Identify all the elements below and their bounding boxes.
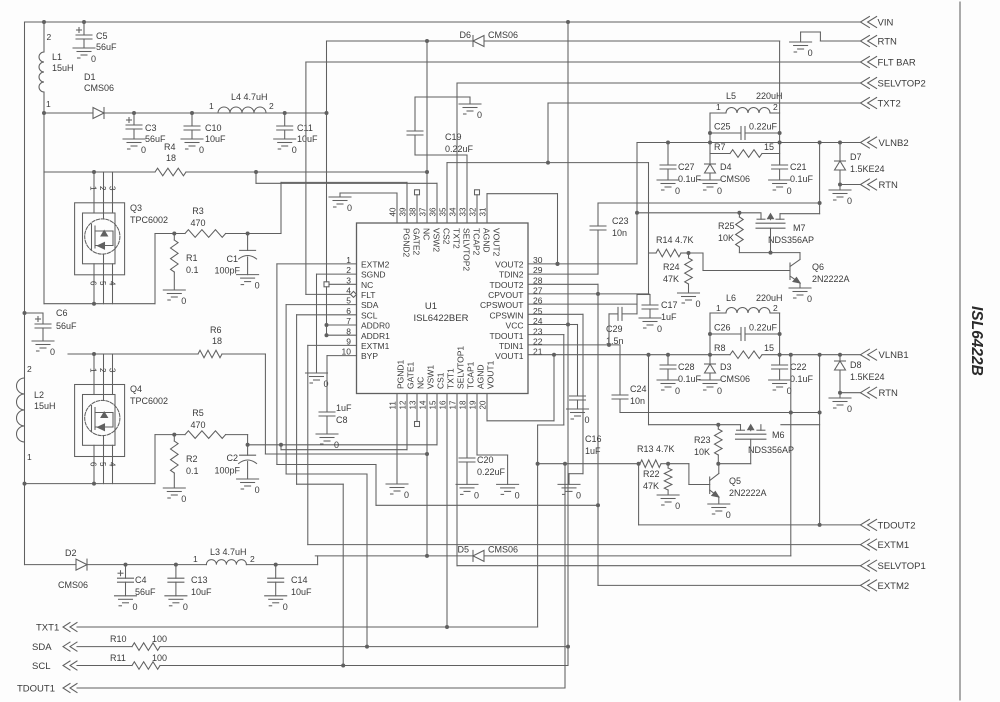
svg-text:10K: 10K [718,233,734,243]
wire D2 row [25,564,77,566]
wire VLNB2 column right / D6 col [779,41,781,165]
wire pin35 TXT2 riser [446,163,448,223]
node VIN-col568 [566,20,570,24]
node R25 top [737,211,741,215]
node R1 top [172,232,176,236]
svg-text:TDOUT1: TDOUT1 [17,684,55,695]
svg-text:NDS356AP: NDS356AP [768,235,814,245]
svg-text:C16: C16 [585,434,602,444]
ground R2 [163,487,185,489]
node TDOUT2 riser R13 [637,462,641,466]
svg-text:5: 5 [98,462,107,467]
svg-text:0.1uF: 0.1uF [790,374,814,384]
svg-text:R3: R3 [192,206,204,216]
svg-text:EXTM2: EXTM2 [878,581,910,592]
svg-text:NC: NC [361,280,373,290]
svg-text:3: 3 [108,368,117,373]
wire TDOUT2 port line [639,524,861,526]
svg-text:L3 4.7uH: L3 4.7uH [210,547,247,557]
wire pin7 ADDR0 [327,324,357,326]
ground CPSWIN net [558,483,580,485]
capacitor C27 [667,143,669,166]
node R23 top [716,423,720,427]
wire SCL line [77,665,132,667]
svg-text:CMS06: CMS06 [84,83,114,93]
svg-text:0: 0 [808,48,813,58]
svg-text:C24: C24 [630,384,647,394]
wire RTN stub [820,40,860,42]
svg-text:C17: C17 [661,300,678,310]
svg-text:0.1uF: 0.1uF [790,174,814,184]
svg-text:15uH: 15uH [52,63,74,73]
svg-text:5: 5 [98,281,107,286]
svg-text:0: 0 [324,379,329,389]
svg-text:R14 4.7K: R14 4.7K [656,235,694,245]
svg-text:PGND2: PGND2 [402,228,412,258]
wire M6 source line [648,355,650,425]
svg-text:32: 32 [469,207,478,216]
svg-text:2: 2 [47,32,52,42]
svg-text:Q3: Q3 [130,203,142,213]
wire L6 col right [779,313,781,365]
port EXTM2 [860,580,869,591]
pin38 NC square [416,195,418,223]
svg-text:40: 40 [389,207,398,216]
page border line [959,2,961,700]
svg-text:Q5: Q5 [729,476,741,486]
svg-text:R23: R23 [694,435,711,445]
svg-text:L2: L2 [34,390,44,400]
wire D6 left riser to D1 row [326,41,328,113]
node D7 RTN [838,183,842,187]
node VLNB2 M7col [818,141,822,145]
node VOUT1 jog [552,353,556,357]
node VLNB1 M6col [818,353,822,357]
port SELVTOP1 [860,560,869,571]
svg-text:D8: D8 [850,360,862,370]
svg-text:C4: C4 [135,575,147,585]
capacitor C28 [667,355,669,365]
node VLNB1 col648 [647,353,651,357]
svg-text:4: 4 [108,462,117,467]
svg-text:D4: D4 [720,162,732,172]
wire GATE1 net [279,443,283,447]
svg-text:0.1uF: 0.1uF [678,174,702,184]
svg-text:C2: C2 [226,453,238,463]
wire SELVTOP2 port line [457,82,860,84]
port TXT2 [860,98,869,109]
node VLNB1 D3col [708,353,712,357]
svg-text:SELVTOP1: SELVTOP1 [878,561,926,572]
svg-text:EXTM1: EXTM1 [361,341,390,351]
node VSW2-D6col [425,170,429,174]
svg-text:0.22uF: 0.22uF [749,122,778,132]
wire VSW1 row [68,353,198,355]
node VOUT2 jog [556,262,560,266]
node C1 top [246,232,250,236]
svg-text:0: 0 [477,110,482,120]
svg-text:10n: 10n [612,228,627,238]
node R13 R22 [666,462,670,466]
svg-text:Q4: Q4 [130,384,142,394]
svg-text:R5: R5 [192,408,204,418]
svg-text:100: 100 [152,653,167,663]
svg-text:0: 0 [675,186,680,196]
svg-text:0: 0 [292,145,297,155]
wire TXT2 port line [548,102,860,104]
wire D5 line [315,555,473,557]
wire Q6 base line [689,252,704,254]
svg-text:VOUT2: VOUT2 [495,259,524,269]
wire D5 net column [790,355,792,556]
capacitor C1 [247,234,249,251]
node M7 line col637 [635,211,639,215]
svg-text:0.1uF: 0.1uF [678,374,702,384]
svg-text:C21: C21 [790,162,807,172]
node VSW2-Q3 [92,170,96,174]
svg-text:D2: D2 [65,548,77,558]
port VLNB1 [860,349,869,360]
svg-text:14: 14 [419,400,428,409]
wire D6 line [327,40,474,42]
svg-text:C20: C20 [477,455,494,465]
wire L3 to D5 riser [317,556,319,565]
capacitor C14 [275,565,277,579]
node M7 drain C23line [818,201,822,205]
svg-text:100pF: 100pF [214,266,240,276]
svg-text:VCC: VCC [506,321,524,331]
wire pin14 VSW1 / D5 column [426,394,428,556]
svg-text:10uF: 10uF [291,587,312,597]
svg-text:0: 0 [334,440,339,450]
svg-text:FLT: FLT [361,290,375,300]
svg-text:RTN: RTN [879,180,898,191]
svg-text:R4: R4 [164,142,176,152]
ground C14 [265,595,287,597]
svg-text:0.1: 0.1 [186,466,199,476]
node D8 RTN [838,391,842,395]
svg-text:33: 33 [459,207,468,216]
wire VSW2 row [43,113,45,172]
svg-text:0: 0 [91,54,96,64]
svg-text:1: 1 [716,303,721,313]
svg-text:VIN: VIN [878,18,894,29]
wire EXTM1 port line [308,544,861,546]
svg-text:D5: D5 [457,545,469,555]
node VLNB1 D5col [789,353,793,357]
svg-text:220uH: 220uH [756,293,783,303]
transistor M6 NDS356AP [740,425,742,431]
svg-text:0.1: 0.1 [186,265,199,275]
capacitor C3 [133,113,135,125]
svg-text:VOUT1: VOUT1 [486,360,496,389]
ground C19 [459,103,481,105]
svg-text:TPC6002: TPC6002 [130,396,168,406]
wire M7 drain jog [819,143,821,214]
ground C1 [237,274,259,276]
wire VLNB2 column left [709,113,711,164]
svg-text:470: 470 [190,218,205,228]
svg-text:C6: C6 [56,308,68,318]
svg-text:L4 4.7uH: L4 4.7uH [231,92,268,102]
svg-text:VOUT2: VOUT2 [492,228,502,257]
port FLT BAR [860,57,869,68]
svg-text:VSW2: VSW2 [432,228,442,252]
svg-text:C3: C3 [145,123,157,133]
svg-text:C26: C26 [714,323,731,333]
wire RTN stub 2 [840,184,860,186]
wire VCC jog to C16 [568,324,578,326]
wire pin34 SELVTOP2 riser [456,83,458,223]
node C26 L [708,332,712,336]
diode D3 [705,363,716,365]
capacitor C4 [125,565,127,579]
ground C20 [456,483,478,485]
svg-text:0: 0 [50,347,55,357]
svg-text:4: 4 [108,281,117,286]
svg-text:SELVTOP1: SELVTOP1 [456,346,466,389]
svg-text:19: 19 [469,400,478,409]
svg-text:10n: 10n [630,396,645,406]
svg-text:AGND: AGND [476,364,486,389]
node R2 top [172,433,176,437]
wire TDOUT2 riser [638,464,640,525]
svg-text:0: 0 [404,490,409,500]
node VCC col [566,323,570,327]
svg-text:R8: R8 [714,343,726,353]
wire pin21 VOUT1 VLNB1 row [528,354,730,356]
svg-text:CMS06: CMS06 [488,545,518,555]
svg-text:R2: R2 [186,454,198,464]
pin13 NC square [416,394,418,422]
svg-text:1: 1 [27,452,32,462]
svg-text:TXT2: TXT2 [452,228,462,249]
svg-text:TDIN2: TDIN2 [499,270,524,280]
pin32 AGND square [476,195,478,223]
port SELVTOP2 [860,78,869,89]
svg-text:16: 16 [439,400,448,409]
svg-text:1.5KE24: 1.5KE24 [850,164,885,174]
svg-text:2: 2 [98,186,107,191]
transistor M7 NDS356AP [760,214,762,220]
wire CS1 line [248,444,437,446]
capacitor C24 [612,394,628,396]
svg-text:C19: C19 [445,132,462,142]
wire D6 col to pin3 NC square [326,113,328,282]
svg-text:1uF: 1uF [661,312,677,322]
svg-text:C8: C8 [336,415,348,425]
svg-text:L6: L6 [726,293,736,303]
wire pin16 TXT1 drop [446,394,448,628]
wire R23 bottom line [718,463,750,465]
wire SDA line [77,646,132,648]
ground R24 [678,292,700,294]
svg-text:0: 0 [576,490,581,500]
svg-text:0: 0 [255,281,260,291]
svg-text:1: 1 [193,554,198,564]
wire pin22 TDIN1 row [528,344,620,346]
svg-text:M6: M6 [772,430,785,440]
svg-text:TXT1: TXT1 [36,623,59,634]
ground C10 [181,138,203,140]
pin3 NC square terminal [329,283,357,285]
svg-text:CPSWOUT: CPSWOUT [480,300,523,310]
svg-text:2: 2 [773,102,778,112]
svg-text:C10: C10 [205,123,222,133]
svg-text:35: 35 [439,207,448,216]
svg-text:CMS06: CMS06 [720,174,750,184]
svg-text:SDA: SDA [361,300,379,310]
svg-text:TDOUT2: TDOUT2 [490,280,524,290]
node VLNB1 C22col [778,353,782,357]
node ADDR0 [325,323,329,327]
node L1-D1 [42,111,46,115]
svg-text:0: 0 [696,299,701,309]
capacitor C13 [175,565,177,579]
node TXT2 col [546,161,550,165]
svg-text:ISL6422B: ISL6422B [968,306,985,376]
port RTN top [860,36,869,47]
svg-text:0: 0 [675,501,680,511]
svg-text:56uF: 56uF [135,587,156,597]
svg-text:RTN: RTN [878,37,897,48]
ground R22 [657,494,679,496]
node Q4 source pin6 [92,482,96,486]
svg-text:100pF: 100pF [214,466,240,476]
svg-text:D7: D7 [850,152,862,162]
svg-text:U1: U1 [425,301,437,312]
svg-text:R1: R1 [186,253,198,263]
svg-text:47K: 47K [663,274,679,284]
ground D3 [699,379,721,381]
svg-text:FLT BAR: FLT BAR [878,58,916,69]
wire Q4 source row [25,483,156,485]
capacitor C11 [284,113,286,126]
svg-text:C25: C25 [714,122,731,132]
svg-text:C11: C11 [297,123,313,133]
svg-text:NC: NC [422,228,432,240]
svg-text:EXTM2: EXTM2 [361,259,390,269]
wire EXTM2 port line [598,584,860,586]
wire pin19 AGND jog [476,394,478,456]
wire pin6 SCL drop [297,314,357,316]
svg-text:CPVOUT: CPVOUT [488,290,523,300]
wire pin28 TDOUT2 jog [528,283,598,285]
wire pin23 TDOUT1 path [528,334,564,336]
svg-text:470: 470 [190,420,205,430]
svg-text:SDA: SDA [32,642,52,653]
svg-text:SELVTOP2: SELVTOP2 [878,79,926,90]
wire col649 TXT2net [648,163,650,294]
wire R3 row [154,234,156,304]
wire pin2 SGND [317,273,357,275]
node C4 [124,563,128,567]
svg-text:CS2: CS2 [442,228,452,245]
svg-text:0: 0 [347,203,352,213]
ground PGND1 [386,483,408,485]
wire C24 bottom line [620,412,820,414]
svg-text:56uF: 56uF [96,42,117,52]
svg-text:56uF: 56uF [145,134,166,144]
op-amp U1 ISL6422BER body [357,223,529,394]
wire VSW1 to VSW1 node [264,354,266,454]
svg-text:1: 1 [46,99,51,109]
svg-text:TDOUT2: TDOUT2 [878,521,916,532]
node 412 M6col [818,411,822,415]
svg-text:38: 38 [409,207,418,216]
svg-text:BYP: BYP [361,351,378,361]
node TDOUT1 R13 [536,462,540,466]
ground C2 [237,478,259,480]
node EXTM2 col598 [596,503,600,507]
node VLNB2 D4col [708,141,712,145]
ground D4 [699,179,721,181]
wire VIN left drop to L2 [24,22,26,565]
ground Q5 [708,503,730,505]
ground C3 [123,138,145,140]
ground Q6 [789,287,811,289]
ground AGND1 [497,483,519,485]
node C2 CS1 tap [246,443,250,447]
node 412 D5col [789,411,793,415]
node D6-col crossing VIN? none; D6 line junction [425,39,429,43]
capacitor C26 [710,333,741,335]
svg-text:0: 0 [474,490,479,500]
svg-text:Q6: Q6 [812,262,824,272]
svg-text:0: 0 [717,186,722,196]
svg-text:VOUT1: VOUT1 [495,351,524,361]
capacitor C17 [649,295,651,306]
wire pin27 CPVOUT row [528,293,649,295]
diode D4 [705,163,716,165]
svg-text:2: 2 [98,368,107,373]
svg-text:CPSWIN: CPSWIN [490,310,524,320]
svg-text:0: 0 [199,145,204,155]
node C11 [283,111,287,115]
node C25 R [778,131,782,135]
capacitor C29 [609,313,618,315]
ground PGND2 [329,196,351,198]
port VIN [860,17,869,28]
svg-text:0: 0 [787,186,792,196]
svg-text:18: 18 [459,400,468,409]
ground D7 [829,189,851,191]
svg-text:13: 13 [409,400,418,409]
svg-text:TDOUT1: TDOUT1 [490,331,524,341]
svg-text:1: 1 [89,186,98,191]
wire C23 top line to M7 [598,202,820,204]
diode D8 [839,355,841,361]
ground C21 [769,179,791,181]
capacitor C25 [710,132,741,134]
capacitor C10 [191,113,193,126]
svg-text:0.22uF: 0.22uF [477,467,506,477]
wire pin25 CPSWIN row [528,313,583,315]
svg-text:TDIN1: TDIN1 [499,341,524,351]
svg-text:GATE2: GATE2 [412,228,422,256]
svg-text:CMS06: CMS06 [720,374,750,384]
port VLNB2 [860,137,869,148]
resistor R1 [171,240,179,272]
node TXT1 pin16 [445,625,449,629]
node C10 [190,111,194,115]
ground C11 [274,138,296,140]
svg-text:C5: C5 [96,31,108,41]
node SDA col568 [566,645,570,649]
transistor Q6 2N2222A [799,253,801,260]
capacitor C20 pin18 TCAP1 [466,394,468,459]
wire Q5 base line [668,463,689,465]
